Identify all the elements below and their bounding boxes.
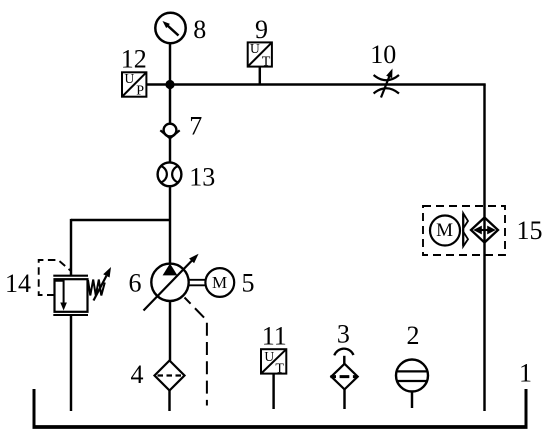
svg-text:4: 4: [131, 360, 144, 389]
drain line dashed: [185, 298, 207, 406]
suction filter 4: [131, 360, 185, 391]
wire check valve to flow meter: [169, 138, 171, 162]
wire flow meter to pump: [169, 186, 171, 264]
svg-text:5: 5: [242, 269, 255, 298]
svg-text:14: 14: [5, 269, 31, 298]
wire sensor 9 drop: [259, 67, 261, 85]
shaft pump to motor: [189, 279, 206, 281]
svg-text:10: 10: [370, 40, 396, 69]
throttle valve 10: [370, 40, 399, 98]
wire main vertical to check valve: [169, 85, 171, 125]
wire main horizontal: [146, 83, 485, 85]
svg-text:9: 9: [255, 15, 268, 44]
svg-text:11: 11: [262, 322, 287, 351]
pressure gauge 8: [155, 13, 206, 44]
electric motor 5: [205, 268, 254, 298]
wire branch vertical down to relief valve: [70, 219, 72, 276]
wire right vertical upper: [483, 85, 485, 412]
svg-text:T: T: [262, 54, 271, 69]
svg-text:U: U: [264, 349, 274, 364]
variable pump 6: [129, 254, 199, 311]
wire pump to filter: [169, 301, 171, 361]
svg-text:12: 12: [121, 45, 147, 74]
svg-text:13: 13: [189, 162, 215, 191]
temperature transducer 11: [261, 322, 287, 377]
tank 1: [33, 359, 533, 428]
node junction: [165, 80, 174, 89]
svg-text:1: 1: [519, 359, 532, 388]
air breather 3: [330, 320, 357, 390]
wire filter to tank: [168, 391, 170, 412]
wire gauge to junction: [169, 43, 171, 84]
relief valve 14: [5, 260, 111, 315]
wire relief valve to tank: [70, 315, 72, 411]
temperature transducer 9: [248, 15, 272, 69]
cooler unit 15: [423, 206, 543, 255]
svg-text:M: M: [212, 273, 227, 292]
wire branch horizontal to relief valve: [71, 219, 170, 221]
svg-text:M: M: [436, 220, 453, 241]
svg-text:P: P: [136, 84, 144, 99]
svg-text:2: 2: [407, 321, 420, 350]
svg-text:8: 8: [193, 15, 206, 44]
wire level gauge drop: [411, 392, 413, 409]
check valve 7: [160, 112, 202, 141]
svg-text:3: 3: [337, 320, 350, 349]
svg-text:T: T: [275, 362, 284, 377]
wire breather drop: [343, 389, 345, 409]
flow meter 13: [158, 162, 216, 191]
wire sensor 11 drop: [272, 374, 274, 409]
svg-text:7: 7: [189, 112, 202, 141]
pressure transducer 12: [121, 45, 147, 99]
svg-text:15: 15: [517, 216, 543, 245]
svg-text:6: 6: [129, 269, 142, 298]
level gauge 2: [396, 321, 428, 392]
